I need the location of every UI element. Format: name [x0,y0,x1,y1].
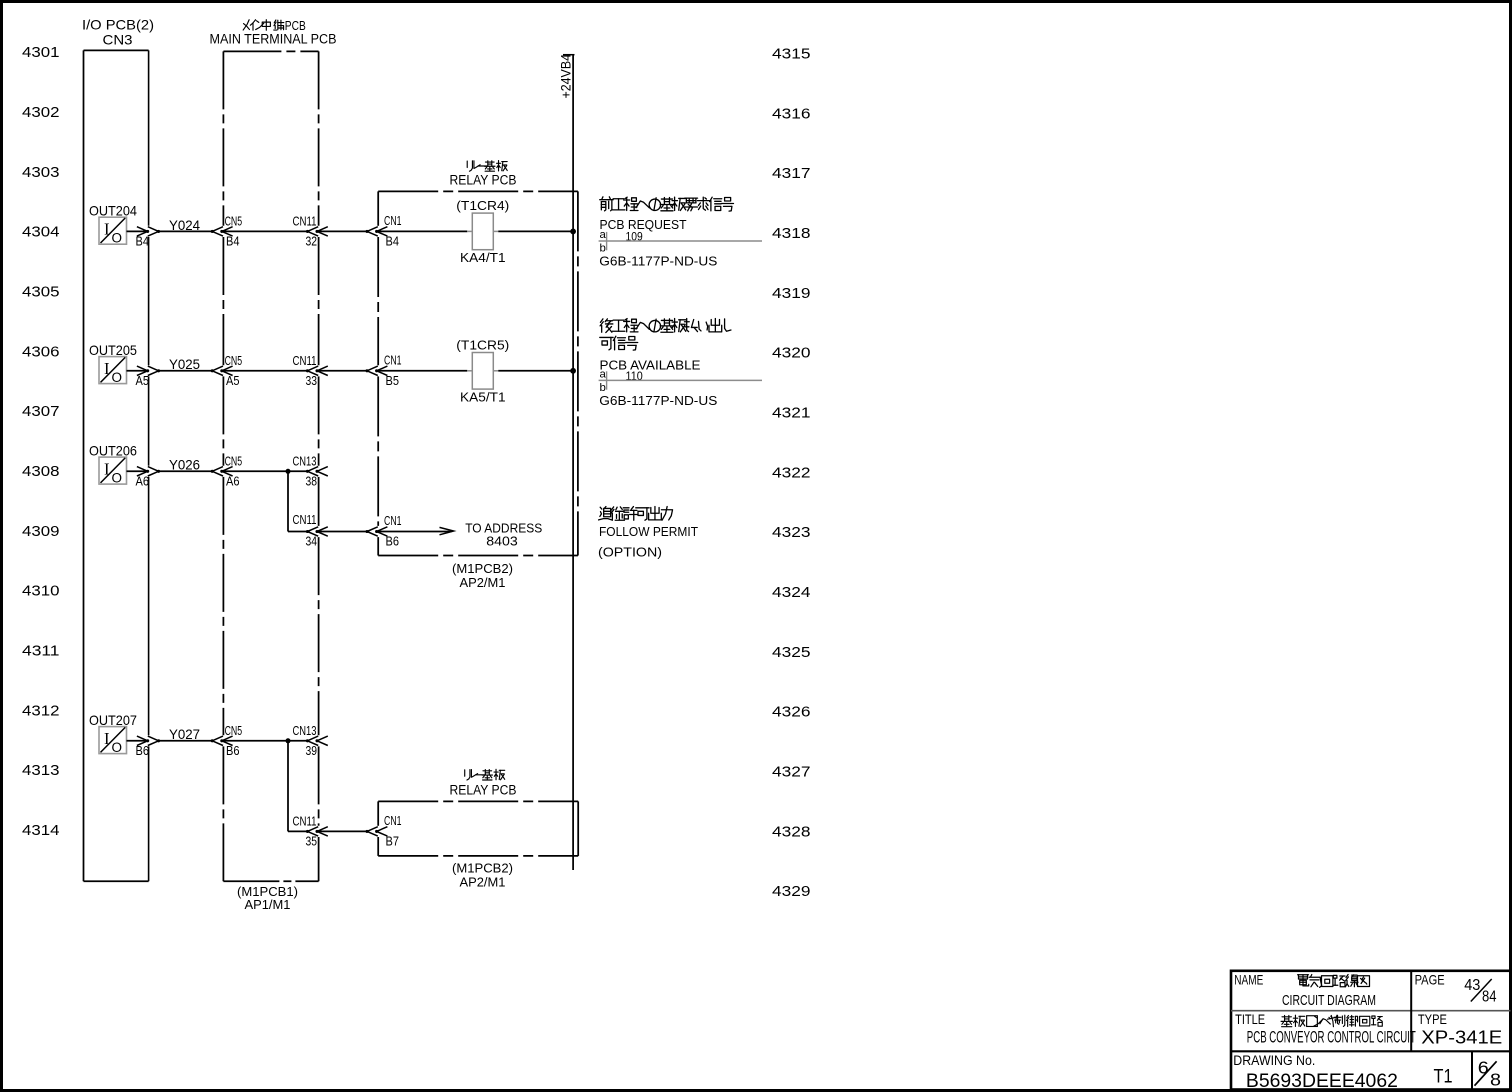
pin chevron CN1 B7 at relay pcb 2 [365,814,401,849]
pin chevron CN11 32 [293,215,328,249]
svg-text:4301: 4301 [22,44,60,61]
pin chevron CN1 B4 at relay pcb [365,214,401,249]
pin chevron CN1 B6 [365,514,401,549]
svg-text:4309: 4309 [22,523,60,540]
svg-text:O: O [112,231,123,246]
svg-text:I: I [104,459,110,478]
title block TYPE field [1418,1012,1502,1048]
title block sheet 6/8 [1475,1058,1502,1090]
svg-text:4327: 4327 [772,763,811,780]
svg-text:CN1: CN1 [384,214,402,228]
pin chevron Y025 / A5 at I/O PCB edge [136,366,161,388]
svg-text:PCB AVAILABLE: PCB AVAILABLE [600,358,701,373]
svg-text:CN1: CN1 [384,514,402,528]
I/O PCB(2) CN3 board outline [82,18,154,882]
pin chevron CN5 A5 [211,354,242,388]
title block DRAWING No field [1233,1053,1398,1092]
relay coil (T1CR4) KA4/T1 [456,198,509,265]
right grid line numbers 4315-4329 [772,46,811,901]
svg-text:(T1CR4): (T1CR4) [456,198,509,213]
svg-text:DRAWING No.: DRAWING No. [1233,1053,1315,1069]
svg-text:KA5/T1: KA5/T1 [460,389,506,404]
wire OUT205 to pin Y025 [127,370,148,372]
svg-text:PCB CONVEYOR CONTROL CIRCUIT: PCB CONVEYOR CONTROL CIRCUIT [1247,1028,1416,1047]
svg-text:O: O [112,471,123,486]
svg-text:B6: B6 [136,743,150,758]
wire OUT204 to pin Y024 [127,230,148,232]
label TO ADDRESS 8403 [465,520,542,548]
svg-text:PCB REQUEST: PCB REQUEST [600,217,687,232]
svg-text:4303: 4303 [22,164,60,181]
svg-text:T1: T1 [1434,1065,1453,1087]
pin chevron CN13 38 [293,454,328,488]
pin chevron CN11 33 [293,354,328,388]
relay coil (T1CR5) KA5/T1 [456,338,509,405]
wire CN1 to relay coil KA5 [377,370,468,372]
wire CN11 to CN1 row4 [317,531,367,533]
wire / arrow to address 8403 [377,527,454,534]
svg-text:+24VB4: +24VB4 [558,54,573,99]
svg-text:CN11: CN11 [293,354,317,368]
svg-text:AP2/M1: AP2/M1 [460,874,506,889]
I/O output symbol OUT205 [89,343,137,385]
svg-text:39: 39 [306,743,318,758]
svg-text:4307: 4307 [22,403,60,420]
svg-text:G6B-1177P-ND-US: G6B-1177P-ND-US [599,393,717,408]
svg-text:AP2/M1: AP2/M1 [460,575,506,590]
title block TITLE field [1235,1012,1416,1047]
wire OUT207 to pin Y027 [127,740,148,742]
svg-text:A6: A6 [226,474,240,489]
svg-text:4308: 4308 [22,463,60,480]
svg-text:34: 34 [306,534,318,549]
wire CN5 to CN11 row2 [222,370,307,372]
wire Y025 to CN5 [159,370,213,372]
svg-text:CN5: CN5 [225,215,243,229]
svg-text:B6: B6 [386,534,400,549]
svg-text:CN3: CN3 [103,32,133,47]
svg-text:35: 35 [306,834,318,849]
wire Y026 to CN5 [159,470,213,472]
svg-text:4316: 4316 [772,105,811,122]
svg-text:6: 6 [1478,1058,1489,1078]
svg-text:TYPE: TYPE [1418,1012,1447,1027]
svg-text:4314: 4314 [22,822,60,839]
wire CN5 to node B [222,740,307,742]
wire CN1 to relay coil KA4 [377,230,468,232]
svg-text:CN13: CN13 [293,454,317,468]
wire CN11 to CN1 row2 [317,370,367,372]
junction node KA5 / +24VB4 [570,368,576,374]
svg-text:4302: 4302 [22,104,60,121]
junction node KA4 / +24VB4 [570,229,576,235]
wire CN5 to node A [222,470,307,472]
svg-text:8403: 8403 [486,533,518,548]
svg-text:(M1PCB2): (M1PCB2) [452,861,513,876]
wire to CN11 34 [288,531,307,533]
svg-text:NAME: NAME [1234,972,1263,987]
title block frame [1231,971,1511,1090]
svg-text:CN1: CN1 [384,354,402,368]
RELAY PCB 1 board outline (chain line) [378,161,578,556]
svg-text:FOLLOW PERMIT: FOLLOW PERMIT [599,524,698,539]
svg-text:a: a [600,368,607,380]
wire CN11 to CN1 row6 [317,830,367,832]
svg-text:4319: 4319 [772,285,811,302]
svg-text:4306: 4306 [22,343,60,360]
svg-text:4304: 4304 [22,224,60,241]
svg-text:38: 38 [306,474,318,489]
svg-text:4305: 4305 [22,284,60,301]
title block NAME field [1234,972,1376,1009]
svg-text:A5: A5 [226,373,240,388]
svg-text:PCB: PCB [285,18,306,33]
svg-text:I: I [104,729,110,748]
svg-text:B4: B4 [136,234,150,249]
svg-text:4322: 4322 [772,464,811,481]
svg-text:AP1/M1: AP1/M1 [245,897,291,912]
svg-text:32: 32 [306,234,318,249]
junction node B (branch to CN11 35) [286,738,291,743]
svg-text:CN13: CN13 [293,724,317,738]
pin chevron Y027 / B6 at I/O PCB edge [136,736,161,758]
svg-text:B5693DEEE4062: B5693DEEE4062 [1246,1071,1398,1092]
I/O output symbol OUT207 [89,713,137,755]
svg-text:84: 84 [1482,989,1497,1006]
svg-text:I: I [104,359,110,378]
svg-text:4312: 4312 [22,702,60,719]
RELAY PCB 2 board outline (chain line) [378,769,578,856]
annotation FOLLOW PERMIT [598,507,698,560]
svg-text:4320: 4320 [772,345,811,362]
svg-text:4325: 4325 [772,644,811,661]
wire Y024 to CN5 [159,230,213,232]
svg-text:4321: 4321 [772,404,811,421]
svg-text:B4: B4 [386,234,400,249]
svg-text:4324: 4324 [772,584,811,601]
pin chevron CN13 39 [293,724,328,758]
wire to CN11 35 [288,830,307,832]
svg-text:B4: B4 [226,234,240,249]
title block PAGE field [1415,972,1497,1005]
svg-text:4329: 4329 [772,883,811,900]
wire node A down to row 4309 [287,471,289,531]
svg-text:CN5: CN5 [225,724,243,738]
svg-text:4310: 4310 [22,583,60,600]
svg-text:CN11: CN11 [293,815,317,829]
svg-text:O: O [112,740,123,755]
annotation PCB REQUEST signal [599,197,762,269]
MAIN TERMINAL PCB board outline (chain line) [210,18,337,882]
left grid line numbers 4301-4314 [22,44,60,839]
svg-text:CN11: CN11 [293,215,317,229]
wire OUT206 to pin Y026 [127,470,148,472]
svg-text:a: a [600,229,607,241]
pin chevron CN5 A6 [211,454,242,488]
svg-text:33: 33 [306,373,318,388]
junction node A (branch to CN11 34) [286,469,291,474]
I/O output symbol OUT206 [89,444,137,486]
svg-text:PAGE: PAGE [1415,972,1445,987]
svg-text:4315: 4315 [772,46,811,63]
pin chevron CN5 B6 [211,724,242,758]
svg-text:RELAY PCB: RELAY PCB [450,783,517,798]
svg-text:4313: 4313 [22,762,60,779]
svg-text:4311: 4311 [22,643,60,660]
svg-text:MAIN TERMINAL PCB: MAIN TERMINAL PCB [210,32,337,47]
svg-text:B6: B6 [226,743,240,758]
svg-text:CN5: CN5 [225,454,243,468]
pin chevron CN11 34 [293,513,328,549]
svg-text:4318: 4318 [772,225,811,242]
svg-text:O: O [112,370,123,385]
pin chevron CN1 B5 at relay pcb [365,354,401,389]
wire coil KA4 to +24VB4 [498,230,573,232]
svg-text:4317: 4317 [772,165,811,182]
wire CN11 to CN1 [317,230,367,232]
svg-text:8: 8 [1490,1070,1501,1090]
svg-text:4323: 4323 [772,524,811,541]
svg-text:G6B-1177P-ND-US: G6B-1177P-ND-US [599,253,717,268]
svg-text:I: I [104,219,110,238]
svg-text:A6: A6 [136,474,150,489]
wire node B down to row 4314 [287,741,289,832]
svg-text:CN1: CN1 [384,814,402,828]
svg-text:TITLE: TITLE [1235,1012,1265,1027]
svg-text:KA4/T1: KA4/T1 [460,250,506,265]
pin chevron CN11 35 [293,815,328,849]
svg-text:RELAY PCB: RELAY PCB [450,172,517,187]
wire Y027 to CN5 [159,740,213,742]
annotation PCB AVAILABLE signal [599,319,762,408]
svg-text:43: 43 [1464,977,1480,994]
pin chevron Y026 / A6 at I/O PCB edge [136,467,161,489]
I/O output symbol OUT204 [89,204,137,246]
label (M1PCB2) AP2/M1 under relay box 2 [452,861,513,890]
svg-text:4326: 4326 [772,704,811,721]
svg-text:A5: A5 [136,373,150,388]
power rail +24VB4 [558,54,574,870]
svg-text:4328: 4328 [772,823,811,840]
pin chevron CN5 B4 [211,215,242,249]
svg-text:XP-341E: XP-341E [1421,1028,1502,1048]
svg-text:B7: B7 [386,834,400,849]
wire CN5 to CN11 [222,230,307,232]
label (M1PCB2) AP2/M1 under relay box 1 [452,561,513,590]
svg-text:I/O PCB(2): I/O PCB(2) [82,18,154,33]
svg-text:B5: B5 [386,373,400,388]
svg-text:CN5: CN5 [225,354,243,368]
svg-text:CN11: CN11 [293,513,317,527]
pin chevron Y024 / B4 at I/O PCB edge [136,227,161,249]
svg-text:(OPTION): (OPTION) [598,545,662,560]
label (M1PCB1) AP1/M1 [237,884,298,912]
svg-text:(T1CR5): (T1CR5) [456,338,509,353]
svg-text:CIRCUIT DIAGRAM: CIRCUIT DIAGRAM [1282,992,1376,1009]
wire coil KA5 to +24VB4 [498,370,573,372]
